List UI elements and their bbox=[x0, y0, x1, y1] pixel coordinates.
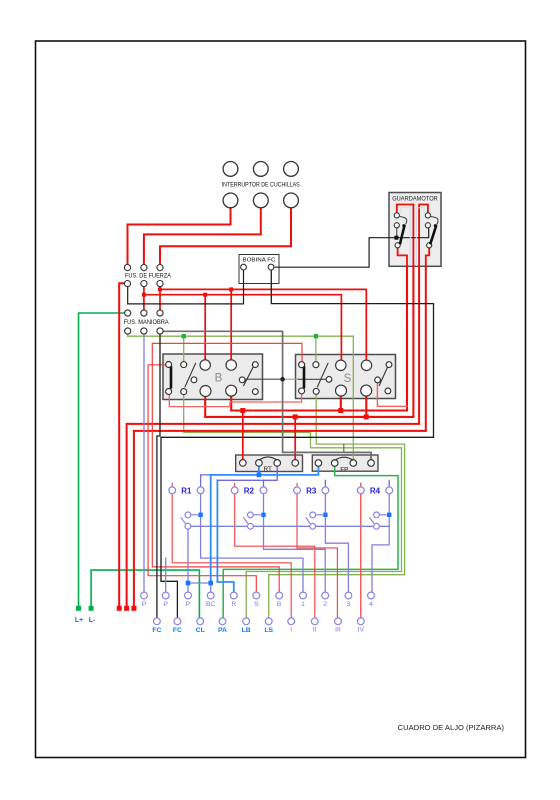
relay R2 contact square bbox=[261, 513, 265, 517]
relay R3 contact square bbox=[323, 513, 327, 517]
terminal square red 3 bbox=[131, 606, 136, 611]
B main contact circles top bbox=[200, 360, 210, 370]
svg-text:3: 3 bbox=[347, 601, 351, 608]
svg-text:BC: BC bbox=[206, 601, 216, 608]
svg-text:LB: LB bbox=[242, 627, 251, 634]
contactor B box body bbox=[163, 354, 263, 400]
motor bus 2: guardamotor w2 to B bottom left bbox=[205, 266, 413, 417]
FP terminals bbox=[315, 460, 322, 467]
red bus A from fuse c3 to S contactor top right bbox=[160, 289, 366, 361]
svg-text:R1: R1 bbox=[181, 486, 192, 495]
svg-text:P: P bbox=[186, 601, 191, 608]
junction square motor bus2 at S drop bbox=[364, 414, 369, 419]
relay R2 coil terminals bbox=[231, 487, 238, 494]
knife switch bottom pole circles bbox=[223, 193, 238, 208]
terminal circles row 1 bbox=[141, 592, 148, 599]
B main contact circles bottom bbox=[200, 386, 211, 397]
S main contact circles bottom bbox=[336, 385, 347, 396]
relay common bus (violet) bbox=[191, 525, 390, 527]
svg-text:II: II bbox=[313, 627, 317, 634]
B aux NO terminals bbox=[181, 362, 187, 368]
wire knife switch pole1 to FUS.DE.FUERZA c1 bbox=[128, 208, 231, 265]
wire net F: B coil top to S pushbutton terminal bbox=[148, 365, 256, 592]
svg-text:BOBINA FC: BOBINA FC bbox=[243, 257, 277, 263]
wire FUS.DE.FUERZA c1 to BOBINA FC left terminal bbox=[128, 270, 244, 304]
svg-text:4: 4 bbox=[369, 601, 373, 608]
bright blue net RT c2 / FP c1 / BC bbox=[211, 466, 319, 580]
svg-text:R2: R2 bbox=[244, 486, 255, 495]
svg-text:B: B bbox=[215, 373, 223, 385]
svg-text:R4: R4 bbox=[370, 486, 381, 495]
S contactor coil bar bbox=[303, 367, 306, 388]
wire RT c1 riser to motor bus 1 bbox=[242, 411, 244, 460]
guardamotor trip square bbox=[394, 236, 398, 240]
wire FUS.DE.FUERZA c3 to FUS.MANIOBRA c3 bbox=[159, 287, 161, 310]
svg-text:INTERRUPTOR DE CUCHILLAS: INTERRUPTOR DE CUCHILLAS bbox=[222, 181, 300, 188]
svg-text:GUARDAMOTOR: GUARDAMOTOR bbox=[392, 196, 438, 202]
guardamotor pale state lines bbox=[401, 208, 424, 266]
guardamotor terminals left bbox=[394, 213, 399, 218]
violet link square P3 to square BC bbox=[188, 583, 211, 592]
knife switch top pole circles bbox=[223, 162, 238, 177]
red bus A tap to B contactor top right bbox=[230, 289, 232, 361]
relay R4 coil feed whisker and wire to terminal IV bbox=[360, 483, 362, 618]
wire FUS.DE.FUERZA c2 to FUS.MANIOBRA c2 bbox=[143, 287, 145, 310]
guardamotor left switch arc bbox=[400, 217, 407, 225]
svg-text:FUS. DE FUERZA: FUS. DE FUERZA bbox=[125, 272, 172, 279]
svg-text:FP: FP bbox=[340, 466, 348, 473]
motor bus 1: guardamotor w1 to B bottom right bbox=[231, 266, 407, 410]
red bus B from fuse c2 to S contactor top left bbox=[144, 295, 342, 362]
FP bimetal arc bbox=[335, 457, 354, 460]
svg-text:FC: FC bbox=[152, 627, 161, 634]
wire knife switch pole2 to FUS.DE.FUERZA c2 bbox=[144, 208, 261, 265]
wire FP c4 riser to LS net bbox=[344, 444, 371, 460]
junction square blue at RT c2 bbox=[257, 473, 262, 478]
guardamotor internal wire left top bbox=[397, 205, 414, 267]
guardamotor trip link left contact bbox=[396, 228, 398, 236]
thermal relay RT box body bbox=[236, 455, 303, 472]
junction square motor bus1 at S drop bbox=[338, 408, 343, 413]
guardamotor right switch arc bbox=[431, 217, 438, 225]
svg-text:R3: R3 bbox=[306, 486, 317, 495]
wire guardamotor w3 to terminal square 2 bbox=[127, 266, 420, 606]
terminal square L+ bbox=[76, 606, 81, 611]
S coil terminals bbox=[299, 362, 305, 368]
relay R4 contact square bbox=[387, 513, 391, 517]
guardamotor terminals right bbox=[425, 213, 430, 218]
relay R1 contact circles and blade bbox=[185, 512, 191, 518]
relay R3 coil terminals bbox=[294, 487, 301, 494]
svg-text:L-: L- bbox=[89, 617, 96, 624]
RT bimetal arc bbox=[259, 457, 277, 460]
terminal square L- bbox=[89, 606, 94, 611]
wire S interlock inside box to mid terminal bbox=[299, 378, 327, 380]
wire RT c4 riser to motor bus 2 bbox=[294, 417, 296, 460]
FUS.DE.FUERZA terminals row1 bbox=[124, 265, 130, 271]
svg-text:1: 1 bbox=[301, 601, 305, 608]
S mid terminals bbox=[326, 377, 332, 383]
terminal circles row 2 bbox=[154, 618, 161, 625]
junction square bus B tap B contactor bbox=[203, 293, 207, 297]
relay R4 output to terminal 4 (violet) bbox=[372, 494, 389, 592]
svg-text:B: B bbox=[277, 601, 282, 608]
wire S bottom left drop to motor bus 1 bbox=[340, 396, 342, 411]
svg-text:S: S bbox=[344, 373, 352, 385]
wire guardamotor w4 to terminal square 3 bbox=[134, 266, 426, 606]
wire green tap to S aux NO top bbox=[315, 336, 317, 362]
wire R1 contact lower to P3 and square bbox=[187, 529, 189, 580]
FUS.MANIOBRA terminals row2 bbox=[125, 328, 131, 334]
svg-text:2: 2 bbox=[323, 601, 327, 608]
svg-text:CL: CL bbox=[196, 627, 205, 634]
B aux NC terminals bbox=[252, 362, 258, 368]
bobina FC box body bbox=[239, 255, 279, 284]
S aux NC terminals bbox=[386, 362, 392, 368]
B mid terminals bbox=[191, 377, 197, 383]
wire L+ to FUS.MANIOBRA c1 (green) bbox=[79, 313, 125, 606]
wire L- to CL terminal (green) bbox=[91, 570, 199, 618]
bright blue wire pickup line to terminal R bbox=[217, 480, 233, 592]
svg-text:CUADRO DE ALJO (PIZARRA): CUADRO DE ALJO (PIZARRA) bbox=[398, 723, 505, 732]
wire B aux NO bottom to LB terminal (olive green) bbox=[184, 395, 402, 618]
guardamotor internal wire right bottom bbox=[426, 248, 429, 266]
phase-failure FP box body bbox=[312, 455, 378, 471]
terminal labels row 1 bbox=[142, 601, 373, 608]
relay R3 output to terminal 3 (violet) bbox=[325, 494, 348, 592]
svg-text:PA: PA bbox=[218, 627, 227, 634]
guardamotor right blade bbox=[430, 225, 436, 244]
guardamotor internal wire left bottom bbox=[398, 248, 407, 266]
relay R2 contact circles and blade bbox=[248, 512, 254, 518]
BOBINA FC terminals bbox=[241, 264, 247, 270]
wire interlock node to S coil side (olive) bbox=[283, 378, 299, 380]
wire net E: S coil top to B pushbutton terminal bbox=[152, 343, 302, 592]
relay R2 output to terminal 2 (violet) bbox=[264, 494, 326, 592]
junction square bus B at fuse c2 bbox=[142, 293, 146, 297]
terminal square red 1 bbox=[117, 606, 122, 611]
guardamotor left blade bbox=[400, 225, 405, 244]
svg-text:FUS. MANIOBRA: FUS. MANIOBRA bbox=[124, 319, 170, 326]
wire FUS.MANIOBRA c2 to terminal P1 (violet) bbox=[143, 334, 145, 592]
wire green control bus from FUS.MANIOBRA c1 bottom to FP c3 bbox=[128, 334, 354, 460]
svg-text:IV: IV bbox=[358, 627, 365, 634]
svg-text:L+: L+ bbox=[75, 617, 83, 624]
junction square blue BC bbox=[208, 581, 213, 586]
relay R4 contact circles and blade bbox=[374, 512, 380, 518]
svg-text:FC: FC bbox=[173, 627, 182, 634]
relay R1 coil terminals bbox=[169, 487, 176, 494]
relay R1 coil feed whisker and wire to terminal I bbox=[172, 483, 291, 618]
interlock junction dot bbox=[280, 377, 285, 382]
wire B aux NC common to interlock node bbox=[245, 378, 282, 380]
relay R3 coil feed whisker and wire to terminal III bbox=[297, 483, 337, 618]
wire FUS.DE.FUERZA c1 down-left to terminal square 1 bbox=[119, 283, 124, 606]
FUS.DE.FUERZA terminals row2 bbox=[124, 281, 130, 287]
violet tap R1 top right bbox=[201, 475, 210, 487]
violet taps from pickup line to relay tops bbox=[264, 480, 390, 487]
svg-text:R: R bbox=[231, 601, 236, 608]
relay R1 contact square bbox=[198, 513, 202, 517]
B contactor aux NO slash bbox=[185, 363, 196, 388]
junction square motor bus1 at RT c1 riser bbox=[240, 408, 245, 413]
wire FP c2 to PA terminal (green) bbox=[223, 466, 398, 618]
wire S aux NO bottom to LS terminal (olive green) bbox=[269, 395, 405, 618]
B contactor coil bar bbox=[170, 367, 173, 388]
S contactor aux NO slash bbox=[317, 363, 328, 388]
B coil terminals bbox=[166, 362, 172, 368]
RT terminals bbox=[240, 460, 247, 467]
terminal square red 2 bbox=[124, 606, 129, 611]
wire knife switch pole3 to FUS.DE.FUERZA c3 bbox=[160, 208, 291, 265]
wire BOBINA FC right terminal bottom to FC2 terminal (long loop) bbox=[161, 270, 434, 618]
relay R2 coil feed whisker and wire to terminal II bbox=[235, 483, 315, 618]
FUS.MANIOBRA terminals row1 bbox=[125, 310, 131, 316]
S aux NO terminals bbox=[313, 362, 319, 368]
violet pickup line from RT c3 bbox=[217, 466, 277, 480]
junction square bus A tap B contactor bbox=[229, 287, 233, 291]
svg-text:I: I bbox=[290, 627, 292, 634]
junction square motor bus2 at RT c4 riser bbox=[293, 414, 298, 419]
wire green tap to B aux NO top bbox=[183, 336, 185, 362]
svg-text:LS: LS bbox=[264, 627, 273, 634]
S main contact circles top bbox=[336, 360, 346, 370]
guardamotor blade dots bbox=[402, 224, 405, 227]
junction square green bus at S aux bbox=[314, 334, 318, 338]
terminal labels row 2 bbox=[152, 627, 364, 635]
S contactor aux NC slash bbox=[379, 364, 389, 387]
relay R4 coil terminals bbox=[357, 487, 364, 494]
svg-text:III: III bbox=[335, 627, 341, 634]
junction square blue P3 bbox=[186, 581, 191, 586]
svg-text:P: P bbox=[163, 601, 168, 608]
guardamotor internal wire right top bbox=[419, 205, 428, 267]
svg-text:RT: RT bbox=[263, 466, 271, 473]
guardamotor box body bbox=[389, 193, 441, 267]
junction square green bus at B aux bbox=[182, 334, 186, 338]
wire S bottom right drop to motor bus 2 bbox=[365, 396, 367, 417]
contactor S box body bbox=[296, 355, 396, 399]
B contactor aux NC slash bbox=[243, 364, 255, 387]
wire BOBINA FC right terminal to guardamotor trip contact bbox=[274, 228, 429, 267]
red bus B tap to B contactor top left bbox=[204, 295, 206, 362]
wire P2 stub to violet bus bbox=[165, 558, 167, 592]
relay R3 contact circles and blade bbox=[310, 512, 316, 518]
junction square bus A at fuse c3 bbox=[158, 287, 162, 291]
wire FUS.MANIOBRA c3 to FC1 terminal bbox=[157, 334, 160, 618]
wire S coil bottom to B coil bottom (light red) bbox=[169, 393, 301, 406]
svg-text:P: P bbox=[142, 601, 147, 608]
svg-text:S: S bbox=[254, 601, 259, 608]
border frame bbox=[36, 41, 526, 758]
wire FUS.MANIOBRA c3 right to interlock node and FP c4 bbox=[163, 331, 371, 460]
branch guardamotor w1 to S aux common bbox=[377, 383, 407, 406]
relay R1 output to terminal 1 (violet) bbox=[201, 494, 303, 592]
